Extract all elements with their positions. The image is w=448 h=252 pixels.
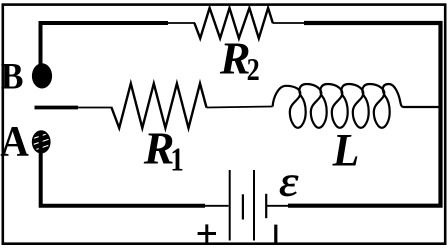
wire: thin lead into R1 (77, 107, 113, 109)
svg-text:L: L (332, 124, 360, 176)
battery plate short 1 (242, 194, 244, 219)
wire: thin lead into battery + terminal (204, 205, 229, 207)
resistor R1 (112, 84, 207, 129)
battery plate long 2 (253, 170, 255, 241)
svg-text:B: B (1, 55, 24, 97)
svg-text:A: A (0, 117, 29, 165)
inductor L (273, 84, 440, 128)
svg-text:2: 2 (247, 53, 260, 88)
resistor R2 (194, 8, 272, 38)
wire: middle branch open stub (thick) (35, 106, 79, 110)
battery plate short 2 (265, 194, 267, 218)
wire: thin lead into R2 (166, 22, 195, 24)
svg-text:1: 1 (170, 140, 183, 178)
wire: thin lead L to right side (403, 106, 439, 108)
wire: thin lead out of battery (266, 205, 291, 207)
wire: thin lead out of R2 (273, 22, 307, 24)
battery + polarity sign (198, 224, 216, 243)
battery - polarity mark (274, 225, 277, 243)
battery plate long 1 (229, 170, 231, 241)
svg-text:ε: ε (279, 157, 298, 204)
wire: node A down and right to battery (thick) (41, 132, 205, 206)
node B (terminal) (32, 63, 52, 88)
wire: thick top-right, right side down, bottom-right to battery (288, 23, 441, 206)
wire: thin lead R1 to L (207, 107, 273, 108)
node A (terminal with hatching) (31, 130, 51, 153)
wire: node B up and right to R2 (thick) (41, 23, 169, 68)
